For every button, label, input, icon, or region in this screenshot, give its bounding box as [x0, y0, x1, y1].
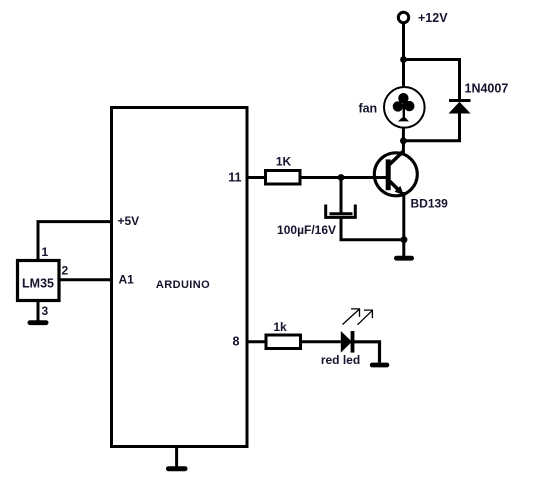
- wire +12V to fan: [402, 23, 405, 87]
- wire emitter to ground: [402, 192, 405, 256]
- svg-text:+12V: +12V: [418, 11, 448, 25]
- svg-text:1N4007: 1N4007: [465, 82, 509, 96]
- capacitor C1 100uF/16V: [326, 205, 356, 218]
- ground (LM35): [28, 320, 49, 325]
- wire LED to ground: [354, 342, 380, 363]
- wire R1 to transistor base: [300, 176, 386, 179]
- wire R2 to LED: [301, 340, 341, 343]
- node emitter/cap junction: [401, 236, 408, 243]
- wire LM35 pin2 to arduino A1: [59, 278, 112, 281]
- resistor R1 1K: [266, 171, 301, 185]
- wire pin11 to resistor R1: [247, 176, 266, 179]
- svg-text:11: 11: [228, 171, 241, 185]
- wire diode bottom to collector node: [403, 112, 459, 141]
- svg-text:LM35: LM35: [22, 277, 54, 291]
- resistor R2 1k: [266, 335, 301, 349]
- wire arduino bottom to ground: [175, 446, 178, 467]
- wire fan bottom to collector: [402, 128, 405, 153]
- svg-text:1k: 1k: [273, 320, 287, 334]
- svg-text:2: 2: [62, 264, 69, 278]
- node collector junction: [400, 137, 407, 144]
- ground (LED): [370, 363, 390, 368]
- node top junction: [400, 56, 407, 63]
- svg-text:ARDUINO: ARDUINO: [156, 279, 210, 291]
- wire capacitor bottom to emitter node: [341, 218, 404, 240]
- wire +5V from arduino to LM35 pin1: [38, 222, 112, 260]
- wire top junction to diode top: [404, 60, 460, 100]
- terminal +12V: [398, 12, 408, 22]
- ground (arduino): [166, 466, 188, 471]
- svg-text:fan: fan: [358, 101, 377, 115]
- svg-text:A1: A1: [119, 273, 135, 287]
- svg-text:8: 8: [233, 335, 240, 349]
- LED D2 red: [341, 331, 355, 353]
- svg-text:red led: red led: [321, 353, 360, 367]
- svg-text:3: 3: [42, 304, 49, 318]
- svg-text:BD139: BD139: [411, 197, 449, 211]
- transistor Q1 BD139: [374, 151, 417, 196]
- arduino U1 box: [112, 108, 248, 447]
- svg-text:100µF/16V: 100µF/16V: [277, 223, 336, 237]
- ground (emitter): [394, 256, 414, 261]
- wire pin8 to resistor R2: [247, 340, 266, 343]
- diode D1 1N4007: [449, 101, 471, 114]
- node base/cap junction: [338, 174, 345, 181]
- wire LM35 pin3 to ground: [37, 301, 40, 321]
- svg-text:1K: 1K: [276, 155, 292, 169]
- wire junction to capacitor top: [340, 178, 343, 213]
- LM35 U2 box: [18, 261, 60, 301]
- fan M1: [384, 87, 425, 128]
- LED arrows: [343, 309, 373, 325]
- svg-text:1: 1: [42, 245, 49, 259]
- svg-text:+5V: +5V: [118, 214, 140, 228]
